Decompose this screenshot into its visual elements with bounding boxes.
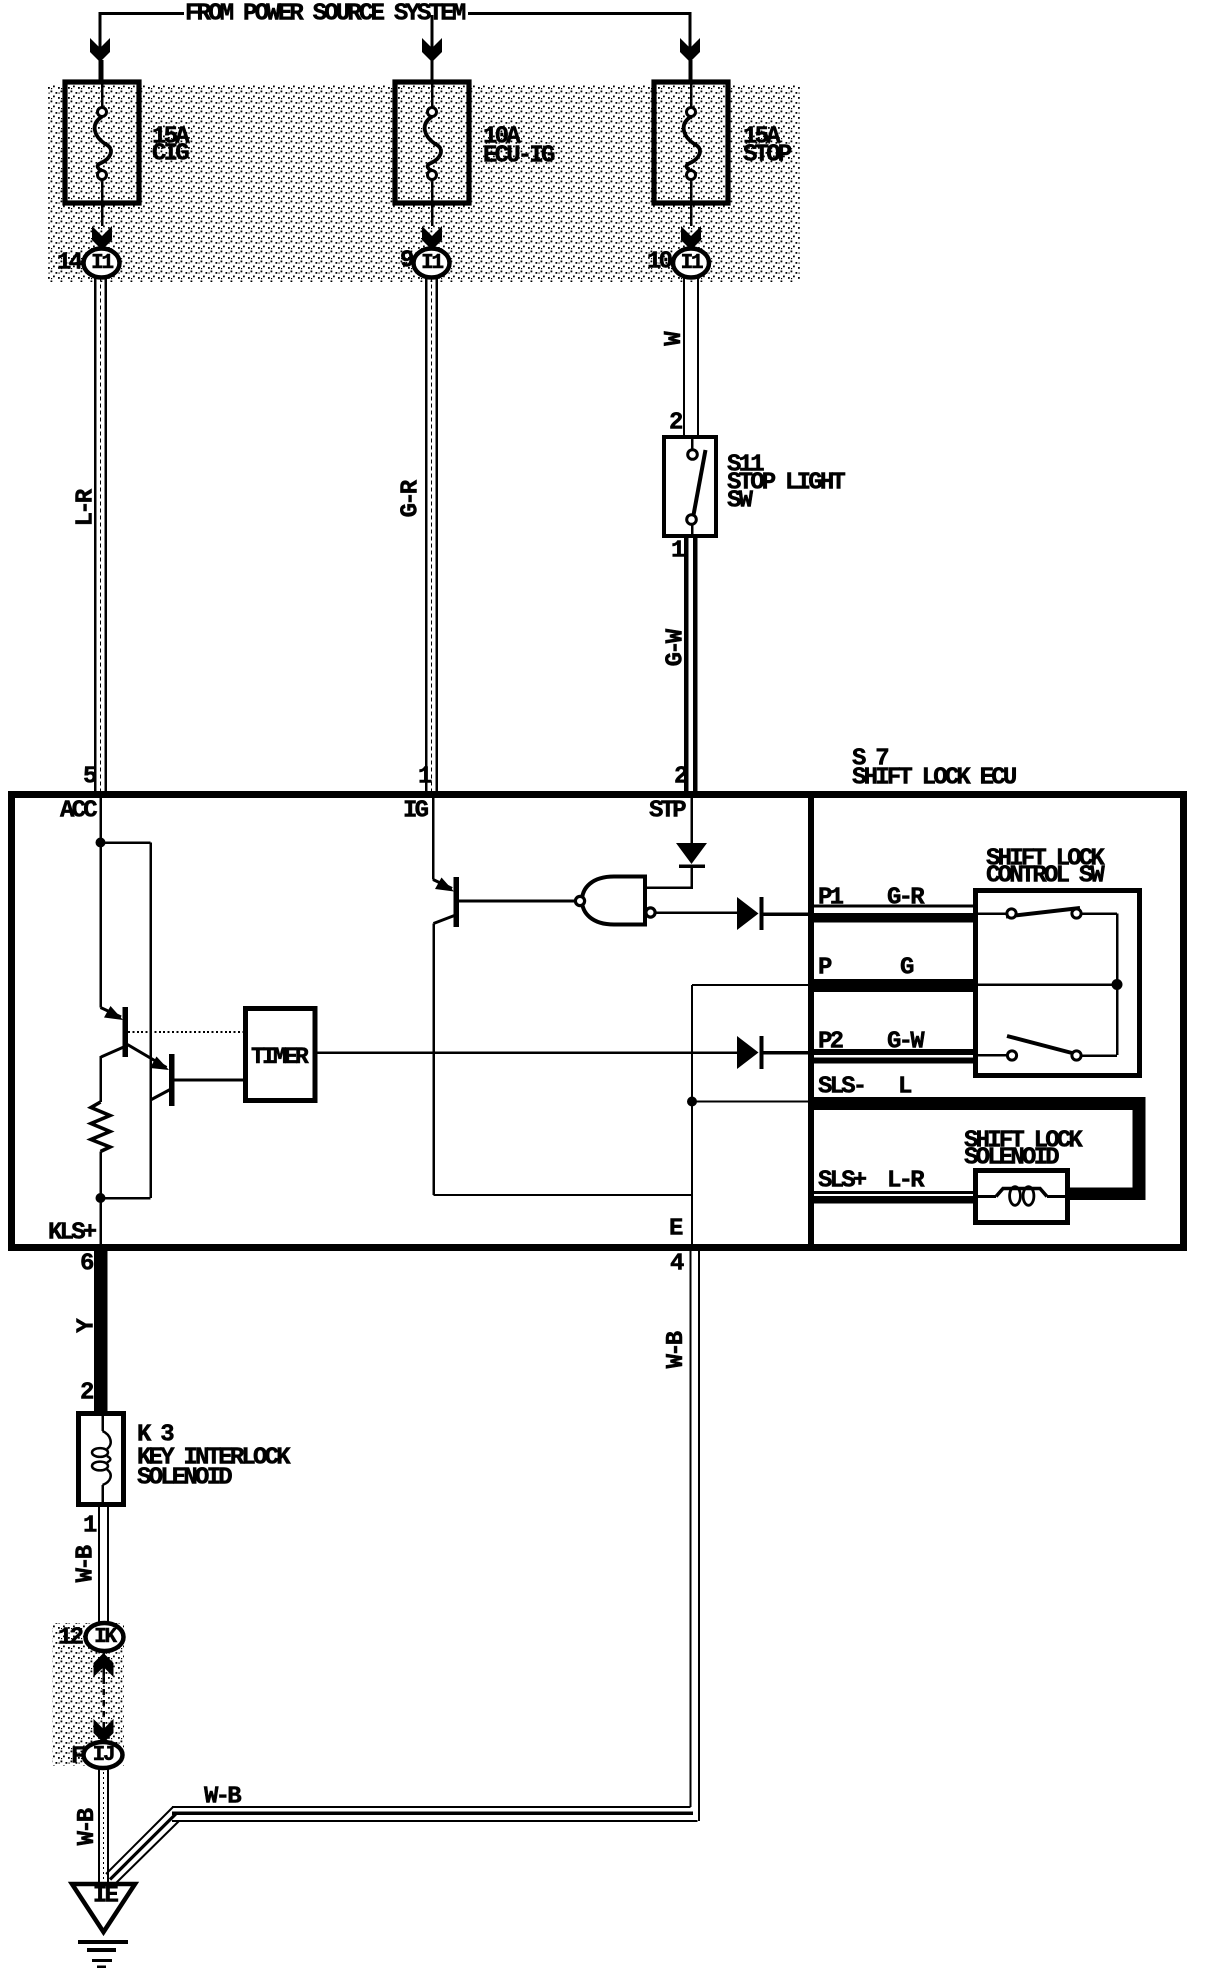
svg-text:SOLENOID: SOLENOID: [137, 1465, 232, 1492]
wire Q3 emitter run: [434, 1194, 693, 1196]
shift lock solenoid box: [976, 1171, 1068, 1223]
svg-text:SHIFT LOCK ECU: SHIFT LOCK ECU: [852, 765, 1016, 792]
svg-text:10: 10: [647, 249, 673, 276]
transistor Q1: [101, 1008, 122, 1018]
svg-text:L-R: L-R: [887, 1168, 925, 1195]
svg-text:SOLENOID: SOLENOID: [964, 1145, 1059, 1172]
nand gate U2: [582, 877, 645, 925]
wire G-R (triple): [425, 278, 428, 792]
wire IG internal: [432, 798, 435, 880]
wire L-R (triple): [94, 278, 97, 792]
wire KLS+ branch join: [101, 1197, 151, 1200]
svg-text:IG: IG: [403, 798, 429, 825]
svg-text:SLS-: SLS-: [818, 1074, 864, 1101]
solenoid K3 coil: [101, 1416, 104, 1431]
svg-text:IK: IK: [94, 1626, 117, 1649]
switch S11 box: [664, 437, 716, 536]
wire ACC internal: [99, 798, 102, 1008]
svg-text:FROM POWER SOURCE SYSTEM: FROM POWER SOURCE SYSTEM: [185, 1, 466, 28]
svg-text:STP: STP: [649, 798, 686, 825]
fuse 10A ECU-IG: [395, 82, 469, 203]
svg-text:TIMER: TIMER: [251, 1044, 309, 1070]
dashed junction wire: [102, 1678, 105, 1722]
connector I1 pin 10: [673, 249, 709, 278]
connector IJ: [84, 1742, 123, 1768]
wire D2 to P1: [764, 912, 815, 916]
connector IK pin 12: [86, 1623, 124, 1651]
switch SW2 (open): [1007, 1036, 1072, 1053]
arrow into fuse STOP: [680, 38, 700, 62]
svg-text:ACC: ACC: [60, 798, 97, 825]
wire P net to divider: [692, 984, 814, 986]
wire Q3 to nand: [459, 900, 576, 903]
fuse 15A STOP: [654, 82, 728, 203]
nand input bubble: [575, 896, 584, 905]
wire resistor to KLS+ node: [99, 1152, 102, 1199]
ground hatching: [78, 1940, 128, 1944]
svg-text:L-R: L-R: [73, 488, 100, 526]
wire Q1 base to timer (dotted): [128, 1031, 243, 1033]
wire W-B bottom horizontal: [172, 1806, 691, 1808]
svg-text:IJ: IJ: [93, 1744, 114, 1767]
svg-text:W-B: W-B: [663, 1331, 690, 1368]
svg-text:2: 2: [674, 764, 687, 791]
ground IE triangle: [72, 1884, 135, 1932]
wire KLS+ to pin 6: [99, 1198, 102, 1247]
ECU S7 box: [12, 795, 1184, 1248]
shift lock control sw box: [976, 891, 1140, 1076]
bus wire from power source: [100, 12, 184, 15]
svg-text:IE: IE: [93, 1883, 119, 1910]
wire STP internal: [690, 798, 693, 844]
wire nand output to diode D2: [655, 911, 737, 914]
wire SLS- to divider: [692, 1100, 814, 1102]
wire P (thick): [814, 979, 973, 992]
svg-text:G-W: G-W: [663, 628, 690, 666]
wire E pin (double): [689, 1247, 691, 1807]
svg-text:12: 12: [58, 1625, 83, 1652]
arrow up into IK: [102, 1651, 105, 1678]
svg-text:ECU-IG: ECU-IG: [483, 143, 555, 170]
svg-text:14: 14: [57, 250, 83, 277]
svg-text:SW: SW: [727, 488, 754, 515]
arrow into fuse ECU-IG: [422, 38, 442, 62]
stipple box (junction connector area): [52, 1623, 124, 1766]
ECU internal divider: [808, 798, 814, 1244]
diode D1 (STP): [676, 843, 707, 864]
wire W-B (double): [98, 1504, 100, 1624]
svg-text:2: 2: [80, 1380, 93, 1407]
wire W (double): [683, 278, 685, 438]
svg-text:I1: I1: [421, 252, 443, 275]
wire SLS- thick loop: [814, 1097, 1146, 1110]
wire P1 (thick): [814, 905, 973, 908]
svg-text:W-B: W-B: [74, 1808, 101, 1845]
arrow into connector I1 pin14: [92, 226, 112, 250]
transistor Q2: [128, 1045, 167, 1068]
svg-text:I1: I1: [681, 252, 703, 275]
wire into sw1: [978, 912, 1008, 915]
stipple band (power source area): [48, 85, 800, 282]
wire P into sw box: [978, 983, 1117, 986]
wire P2 (thick): [814, 1049, 973, 1055]
solenoid K3 box: [79, 1414, 124, 1505]
wire sw common vertical: [1116, 914, 1119, 1056]
svg-text:W-B: W-B: [73, 1545, 100, 1582]
wire timer output: [315, 1051, 737, 1054]
arrow into fuse CIG: [90, 38, 110, 62]
wire Q1 emitter to resistor: [99, 1056, 102, 1102]
wire into sw2: [978, 1054, 1008, 1057]
switch S11 contact: [691, 437, 694, 450]
switch SW1 (closed): [1006, 908, 1080, 917]
nand output bubble: [646, 908, 655, 917]
svg-text:KLS+: KLS+: [48, 1220, 97, 1247]
svg-text:I1: I1: [91, 252, 113, 275]
svg-text:STOP: STOP: [743, 142, 792, 169]
wire Q2 base to timer: [175, 1078, 244, 1081]
arrow into connector I1 pin9: [422, 226, 442, 250]
svg-text:CONTROL SW: CONTROL SW: [986, 863, 1105, 890]
fuse 15A CIG: [65, 82, 139, 203]
wire to ground (double): [98, 1767, 100, 1884]
wire D3 to P2: [764, 1051, 815, 1055]
connector I1 pin 14: [84, 249, 120, 278]
diode D3: [737, 1036, 759, 1069]
wire KLS+ (thick): [94, 1244, 108, 1411]
timer U1 box: [246, 1009, 316, 1101]
arrow into connector I1 pin10: [681, 226, 701, 250]
node ACC junction: [96, 838, 106, 848]
node sw common junction: [1112, 979, 1123, 990]
svg-text:CIG: CIG: [152, 141, 189, 168]
transistor Q3: [433, 880, 452, 889]
wire ACC branch: [101, 841, 151, 844]
arrow down into IJ: [102, 1722, 105, 1741]
node SLS- junction: [687, 1097, 697, 1107]
svg-text:SLS+: SLS+: [818, 1168, 867, 1195]
wire G-W (double thick): [684, 536, 689, 791]
solenoid coil: [978, 1195, 996, 1198]
connector I1 pin 9: [414, 249, 450, 278]
svg-text:9: 9: [400, 248, 413, 275]
svg-text:F: F: [71, 1744, 84, 1771]
node KLS+ junction: [96, 1193, 106, 1203]
wire P net vertical: [691, 985, 693, 1247]
wire SLS+ (thick): [814, 1191, 973, 1194]
svg-text:G-R: G-R: [398, 479, 425, 517]
wire nand top to STP diode: [645, 886, 692, 889]
resistor R1: [91, 1102, 110, 1152]
svg-text:2: 2: [669, 410, 682, 437]
diode D2: [737, 897, 759, 930]
wire W-B diagonal: [106, 1807, 173, 1874]
